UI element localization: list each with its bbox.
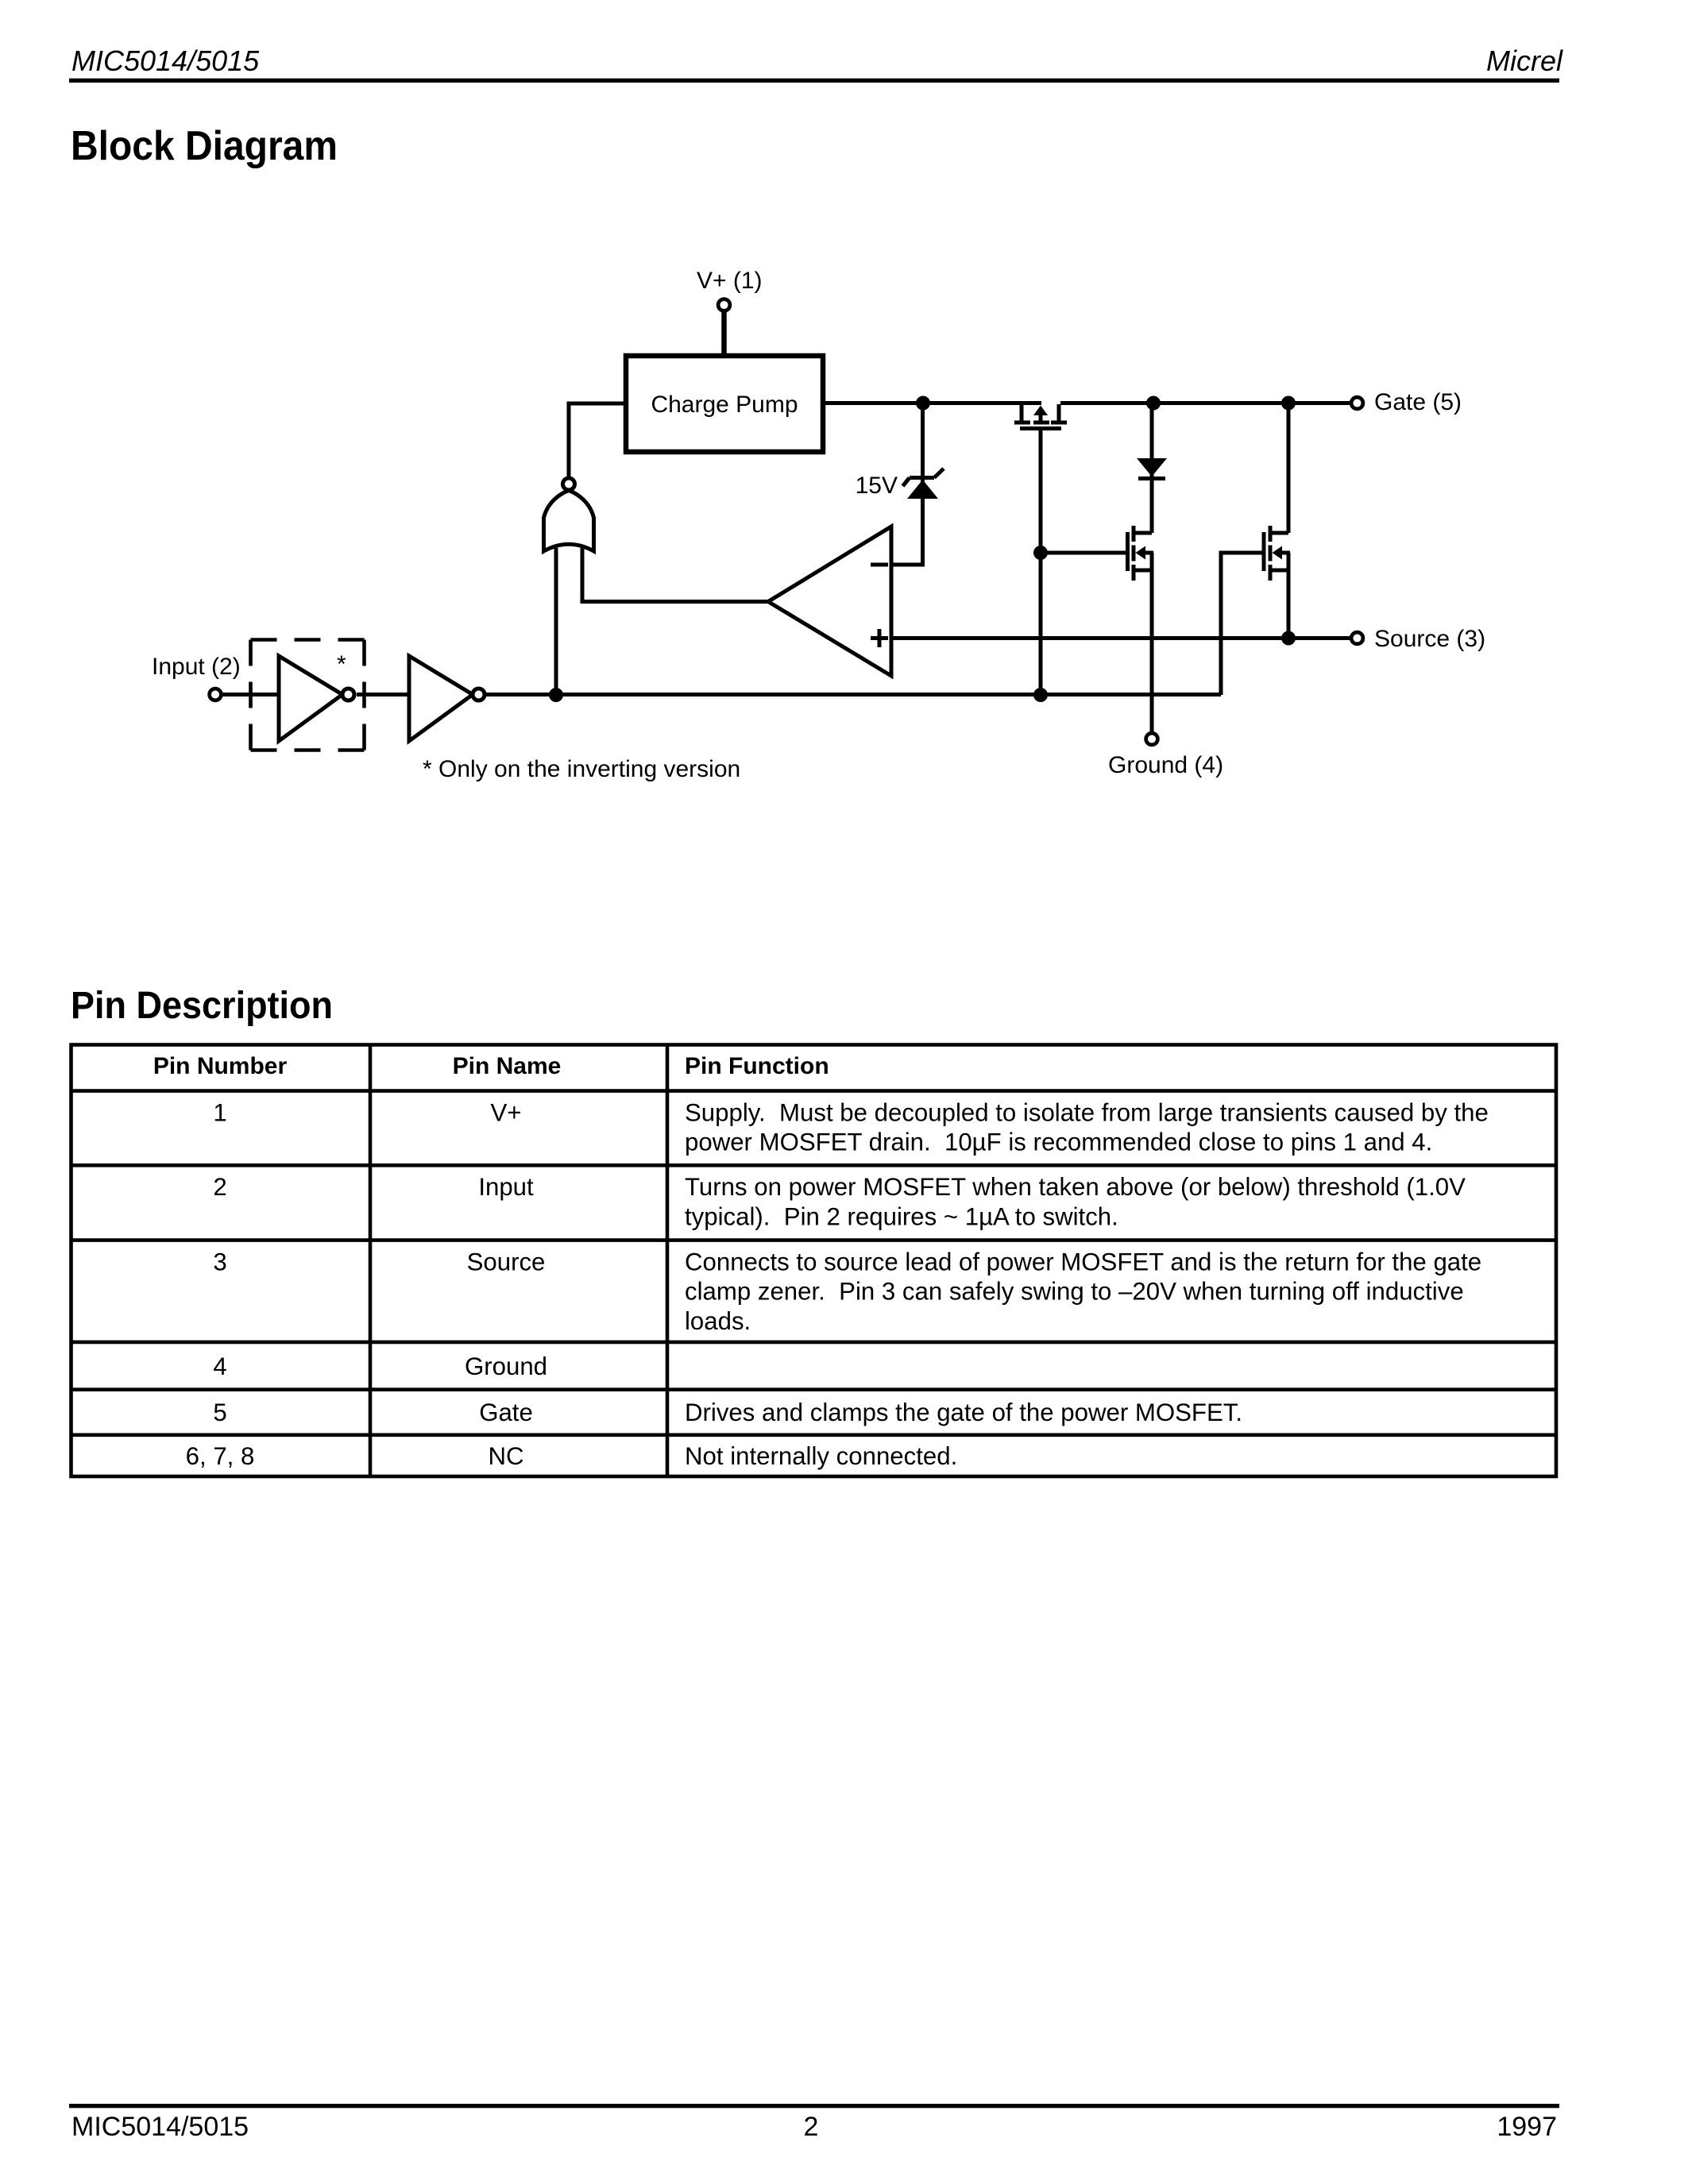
svg-text:Ground (4): Ground (4) — [1108, 752, 1223, 778]
svg-text:power MOSFET drain. 10µF is r: power MOSFET drain. 10µF is recommended … — [685, 1129, 1432, 1156]
svg-text:2: 2 — [213, 1173, 226, 1201]
svg-text:Pin Description: Pin Description — [71, 983, 333, 1026]
svg-text:* Only on the inverting versio: * Only on the inverting version — [423, 756, 740, 782]
svg-text:Pin Name: Pin Name — [453, 1053, 562, 1079]
svg-text:Block Diagram: Block Diagram — [71, 122, 338, 168]
svg-text:Not internally connected.: Not internally connected. — [685, 1442, 957, 1470]
svg-text:Micrel: Micrel — [1486, 44, 1563, 77]
svg-text:typical). Pin 2 requires ~ 1µ: typical). Pin 2 requires ~ 1µA to switch… — [685, 1202, 1118, 1230]
svg-text:Source (3): Source (3) — [1374, 626, 1485, 652]
svg-text:Pin Number: Pin Number — [153, 1053, 288, 1079]
svg-text:4: 4 — [213, 1352, 226, 1380]
svg-text:Gate (5): Gate (5) — [1374, 389, 1462, 415]
svg-text:Input (2): Input (2) — [152, 654, 241, 680]
svg-text:MIC5014/5015: MIC5014/5015 — [71, 2112, 249, 2142]
svg-text:Source: Source — [467, 1248, 546, 1275]
svg-text:2: 2 — [804, 2112, 819, 2142]
svg-text:clamp zener. Pin 3 can safely: clamp zener. Pin 3 can safely swing to –… — [685, 1278, 1464, 1306]
svg-text:Turns on power MOSFET when tak: Turns on power MOSFET when taken above (… — [685, 1173, 1466, 1201]
svg-text:6, 7, 8: 6, 7, 8 — [186, 1442, 255, 1470]
svg-text:MIC5014/5015: MIC5014/5015 — [71, 44, 260, 77]
svg-text:Ground: Ground — [465, 1352, 547, 1380]
svg-text:*: * — [337, 651, 346, 677]
svg-text:1997: 1997 — [1497, 2112, 1557, 2142]
svg-text:Input: Input — [478, 1173, 534, 1201]
svg-text:V+ (1): V+ (1) — [697, 268, 763, 294]
svg-text:NC: NC — [488, 1442, 523, 1470]
svg-text:Drives and clamps the gate of: Drives and clamps the gate of the power … — [685, 1399, 1242, 1426]
svg-text:Supply. Must be decoupled to: Supply. Must be decoupled to isolate fro… — [685, 1098, 1489, 1126]
svg-text:1: 1 — [213, 1098, 226, 1126]
svg-text:Gate: Gate — [479, 1399, 533, 1426]
svg-text:loads.: loads. — [685, 1307, 751, 1335]
svg-text:3: 3 — [213, 1248, 226, 1275]
svg-text:Charge Pump: Charge Pump — [651, 392, 798, 418]
svg-text:Pin Function: Pin Function — [685, 1053, 829, 1079]
svg-text:5: 5 — [213, 1399, 226, 1426]
svg-text:V+: V+ — [490, 1098, 521, 1126]
svg-text:15V: 15V — [856, 473, 898, 499]
svg-text:Connects to source lead of pow: Connects to source lead of power MOSFET … — [685, 1248, 1481, 1275]
